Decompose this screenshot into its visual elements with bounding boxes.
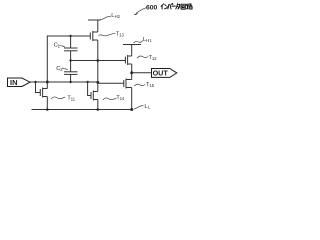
junction dot T14 gate tap (86, 81, 88, 83)
wire central vertical (97, 61, 99, 83)
transistor T13 (90, 31, 98, 41)
wire T12 drain to L_H1 (131, 45, 133, 57)
wire C1 to C2 (70, 51, 72, 72)
wire node B horizontal to T12 gate (71, 60, 126, 62)
wire C2 bottom lead (70, 74, 72, 82)
label C2 (56, 66, 67, 72)
capacitor C1 (64, 48, 78, 51)
イ (161, 4, 164, 9)
label L_L (134, 104, 151, 110)
svg-text:L: L (148, 105, 151, 110)
wire T11 gate drop (36, 82, 41, 93)
power rail bar L_H2 (88, 19, 101, 21)
svg-text:14: 14 (120, 96, 125, 101)
wire to T15 gate (98, 82, 124, 84)
junction dot node B (69, 59, 71, 61)
label C1 (54, 42, 65, 48)
路 (187, 4, 193, 9)
wire T11 source (46, 97, 48, 110)
input port IN (8, 78, 31, 87)
wire T14 source (97, 100, 99, 110)
label L_H1 (134, 37, 153, 43)
wire T13 source drop (97, 40, 99, 61)
label T15 (135, 82, 155, 88)
capacitor C2 (64, 72, 78, 75)
transistor T12 (125, 55, 131, 65)
ー (172, 5, 175, 7)
junction dot C1 tap (69, 35, 71, 37)
svg-text:H2: H2 (115, 14, 121, 19)
wire T13 gate line to node IN vertical (47, 36, 90, 82)
wire T14 drain (97, 82, 99, 91)
label T14 (103, 95, 125, 101)
svg-text:600: 600 (146, 5, 158, 12)
label T12 (137, 55, 157, 61)
power rail bar L_H1 (123, 44, 141, 46)
wire C1 top lead (70, 36, 72, 48)
wire OUT (132, 72, 152, 74)
svg-text:H1: H1 (146, 38, 152, 43)
leader arrow for figure number 600 (134, 8, 146, 15)
wire T15 drain to OUT node (131, 73, 133, 80)
svg-text:12: 12 (152, 56, 157, 61)
svg-text:2: 2 (60, 67, 63, 72)
wire T12 source to OUT node (131, 64, 133, 73)
output port OUT (152, 69, 177, 78)
wire IN line (30, 81, 98, 83)
junction dot OUT node (130, 71, 133, 74)
junction dot T14 source at rail (97, 108, 100, 111)
svg-text:13: 13 (119, 32, 124, 37)
junction dot T11 gate tap (34, 81, 36, 83)
junction dot central on IN line (96, 81, 99, 84)
タ (176, 4, 180, 9)
バ (168, 4, 173, 9)
power rail L_L (32, 109, 134, 111)
label L_H2 (100, 13, 120, 19)
回 (181, 4, 185, 9)
svg-text:11: 11 (71, 96, 76, 101)
transistor T14 (91, 91, 98, 101)
transistor T15 (124, 79, 132, 89)
junction dot T15 source at rail end (130, 108, 133, 111)
wire T13 drain to L_H2 rail (97, 20, 99, 32)
junction dot T11 source at rail (46, 108, 49, 111)
junction dot C2 tap (69, 81, 71, 83)
label T11 (51, 95, 75, 101)
wire T14 gate drop (88, 82, 91, 96)
title text インバータ回路 (161, 4, 192, 10)
wire T11 drain (46, 82, 48, 89)
svg-text:IN: IN (10, 78, 18, 87)
transistor T11 (40, 88, 47, 98)
junction dot central node (96, 59, 99, 62)
ン (164, 5, 167, 9)
label T13 (99, 32, 125, 38)
junction dot T11 drain tap (46, 81, 49, 84)
wire T15 source (131, 88, 133, 110)
svg-text:15: 15 (150, 83, 155, 88)
svg-text:OUT: OUT (153, 69, 169, 78)
